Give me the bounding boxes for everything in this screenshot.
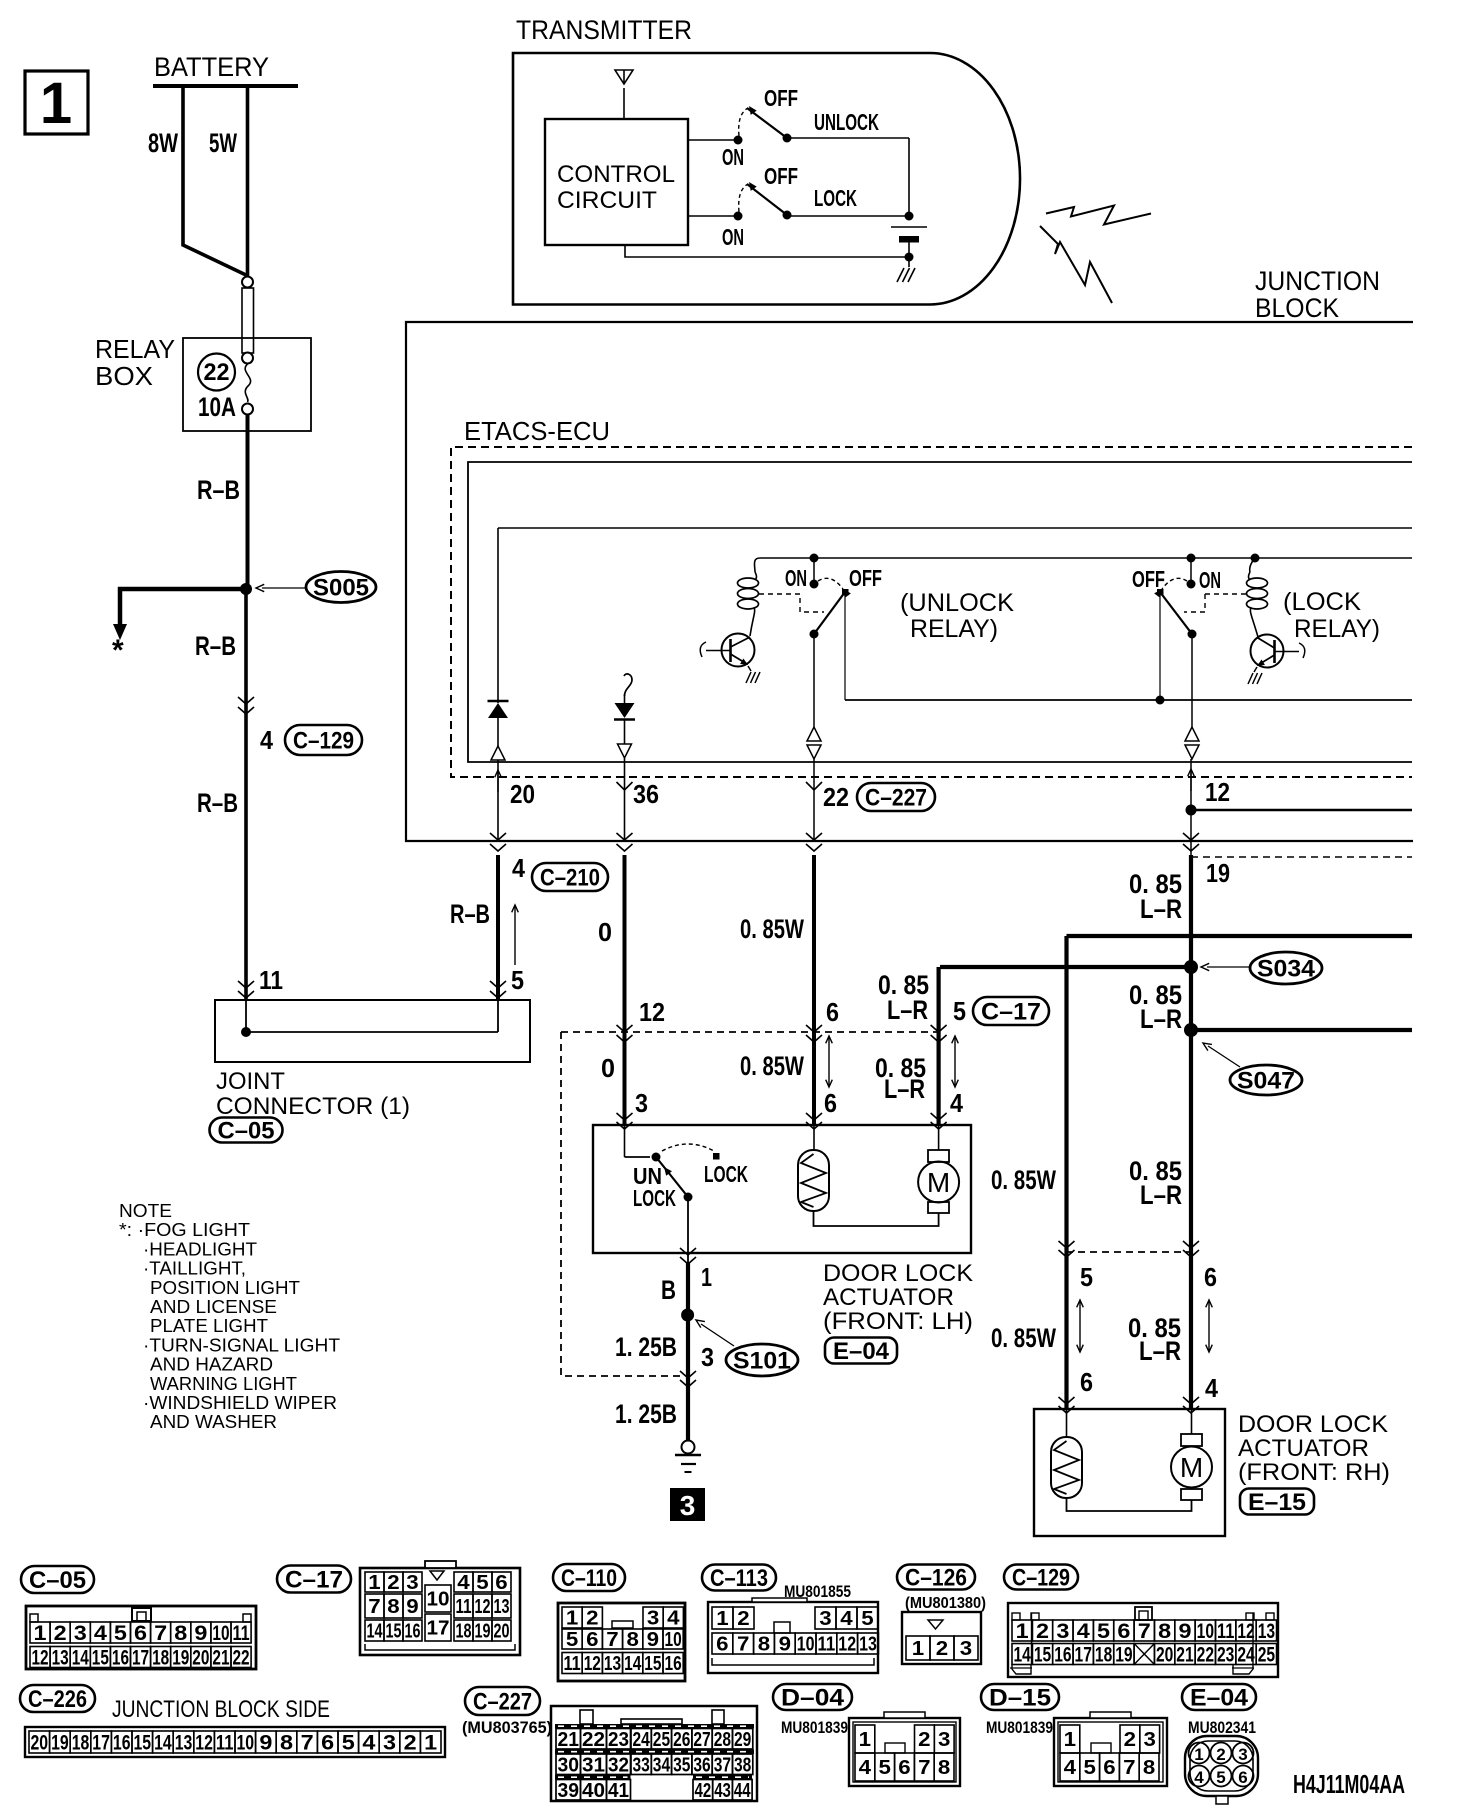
svg-text:(FRONT: RH): (FRONT: RH) [1238, 1459, 1390, 1486]
svg-text:16: 16 [665, 1653, 682, 1675]
svg-text:10: 10 [237, 1732, 255, 1755]
svg-text:2: 2 [54, 1622, 67, 1645]
svg-text:BLOCK: BLOCK [1255, 293, 1339, 323]
svg-text:6: 6 [134, 1622, 147, 1645]
svg-text:13: 13 [494, 1596, 510, 1618]
svg-text:35: 35 [673, 1754, 690, 1776]
svg-text:(MU803765): (MU803765) [462, 1718, 552, 1737]
svg-text:31: 31 [582, 1754, 605, 1776]
svg-text:5: 5 [566, 1629, 578, 1651]
svg-text:3: 3 [635, 1088, 648, 1118]
svg-text:33: 33 [633, 1754, 650, 1776]
svg-text:1: 1 [912, 1638, 924, 1660]
svg-text:32: 32 [608, 1754, 629, 1776]
svg-text:40: 40 [582, 1780, 605, 1802]
svg-text:6: 6 [1238, 1768, 1247, 1787]
svg-text:(LOCK: (LOCK [1283, 588, 1361, 616]
svg-text:21: 21 [1176, 1644, 1194, 1667]
svg-text:4: 4 [1064, 1757, 1077, 1779]
svg-text:TRANSMITTER: TRANSMITTER [516, 15, 692, 45]
svg-text:D–04: D–04 [781, 1685, 845, 1712]
svg-text:1: 1 [1194, 1745, 1203, 1764]
svg-text:C–17: C–17 [285, 1567, 343, 1594]
svg-text:17: 17 [132, 1647, 149, 1670]
svg-text:C–129: C–129 [293, 728, 354, 755]
svg-text:23: 23 [608, 1729, 629, 1751]
svg-text:11: 11 [233, 1622, 250, 1645]
svg-text:19: 19 [172, 1647, 189, 1670]
svg-text:30: 30 [558, 1754, 580, 1776]
svg-text:B: B [661, 1275, 676, 1305]
svg-text:C–126: C–126 [905, 1565, 967, 1592]
svg-text:8: 8 [1158, 1620, 1171, 1643]
svg-text:7: 7 [154, 1622, 167, 1645]
svg-text:JUNCTION BLOCK SIDE: JUNCTION BLOCK SIDE [112, 1696, 330, 1723]
svg-text:1: 1 [40, 71, 72, 136]
svg-text:26: 26 [673, 1729, 690, 1751]
svg-text:1: 1 [1064, 1729, 1076, 1751]
svg-text:RELAY: RELAY [95, 334, 175, 364]
svg-text:22: 22 [823, 782, 849, 812]
svg-text:C–113: C–113 [710, 1565, 768, 1592]
svg-text:14: 14 [72, 1647, 89, 1670]
svg-text:3: 3 [680, 1490, 696, 1521]
svg-text:C–227: C–227 [473, 1689, 532, 1716]
svg-text:27: 27 [693, 1729, 710, 1751]
svg-text:PLATE LIGHT: PLATE LIGHT [150, 1316, 268, 1336]
svg-text:C–17: C–17 [981, 999, 1041, 1026]
svg-text:20: 20 [510, 779, 535, 809]
svg-text:39: 39 [558, 1780, 580, 1802]
svg-text:M: M [1180, 1452, 1203, 1483]
svg-text:1: 1 [701, 1262, 712, 1292]
svg-text:8: 8 [1143, 1757, 1155, 1779]
svg-text:18: 18 [72, 1732, 90, 1755]
svg-text:3: 3 [819, 1608, 831, 1630]
svg-text:OFF: OFF [764, 85, 798, 111]
svg-text:5: 5 [953, 996, 966, 1026]
svg-text:3: 3 [701, 1342, 714, 1372]
svg-text:C–227: C–227 [865, 785, 927, 812]
svg-text:7: 7 [368, 1596, 380, 1618]
svg-text:3: 3 [1056, 1620, 1069, 1643]
svg-text:1: 1 [1016, 1620, 1029, 1643]
svg-text:21: 21 [558, 1729, 580, 1751]
svg-text:JOINT: JOINT [216, 1068, 285, 1095]
svg-text:12: 12 [195, 1732, 213, 1755]
svg-text:C–226: C–226 [28, 1686, 87, 1713]
svg-text:*: * [112, 634, 124, 667]
svg-text:3: 3 [960, 1638, 972, 1660]
svg-text:12: 12 [32, 1647, 49, 1670]
svg-text:15: 15 [92, 1647, 109, 1670]
svg-text:2: 2 [737, 1608, 749, 1630]
svg-text:C–05: C–05 [29, 1567, 86, 1594]
svg-text:20: 20 [192, 1647, 209, 1670]
svg-text:16: 16 [1054, 1644, 1071, 1667]
svg-text:10: 10 [1197, 1620, 1214, 1643]
svg-text:3: 3 [1238, 1745, 1247, 1764]
svg-text:1. 25B: 1. 25B [615, 1399, 677, 1429]
svg-text:12: 12 [584, 1653, 601, 1675]
svg-text:C–129: C–129 [1012, 1565, 1070, 1592]
svg-text:22: 22 [1197, 1644, 1214, 1667]
svg-text:14: 14 [624, 1653, 642, 1675]
svg-text:14: 14 [367, 1621, 384, 1643]
svg-text:11: 11 [216, 1732, 234, 1755]
svg-text:5: 5 [1080, 1262, 1093, 1292]
svg-text:L–R: L–R [1140, 894, 1182, 924]
svg-text:8W: 8W [148, 128, 178, 158]
svg-text:14: 14 [154, 1732, 172, 1755]
svg-text:7: 7 [737, 1634, 749, 1656]
svg-text:23: 23 [1217, 1644, 1234, 1667]
svg-text:ACTUATOR: ACTUATOR [823, 1284, 954, 1311]
svg-text:1: 1 [566, 1608, 578, 1630]
svg-text:10A: 10A [198, 392, 236, 422]
svg-text:10: 10 [427, 1589, 450, 1611]
svg-text:L–R: L–R [1140, 1180, 1182, 1210]
svg-text:L–R: L–R [887, 995, 928, 1025]
svg-text:4: 4 [667, 1608, 680, 1630]
svg-text:C–05: C–05 [218, 1118, 275, 1145]
svg-text:ON: ON [785, 565, 807, 591]
svg-text:12: 12 [838, 1634, 856, 1656]
svg-text:34: 34 [653, 1754, 671, 1776]
svg-text:(MU801380): (MU801380) [905, 1595, 986, 1612]
svg-text:4: 4 [1194, 1768, 1204, 1787]
svg-text:DOOR LOCK: DOOR LOCK [1238, 1411, 1388, 1438]
svg-text:BOX: BOX [95, 361, 153, 391]
svg-text:DOOR LOCK: DOOR LOCK [823, 1260, 973, 1287]
svg-text:MU801839: MU801839 [986, 1718, 1053, 1737]
svg-text:8: 8 [174, 1622, 187, 1645]
svg-text:S101: S101 [733, 1348, 791, 1375]
svg-text:2: 2 [936, 1638, 948, 1660]
svg-text:9: 9 [779, 1634, 791, 1656]
svg-text:11: 11 [1217, 1620, 1235, 1643]
svg-text:0. 85W: 0. 85W [740, 914, 804, 944]
svg-text:E–04: E–04 [1190, 1685, 1249, 1712]
svg-text:4: 4 [94, 1622, 107, 1645]
svg-text:3: 3 [1144, 1729, 1156, 1751]
svg-text:NOTE: NOTE [119, 1201, 172, 1221]
svg-text:POSITION LIGHT: POSITION LIGHT [150, 1278, 300, 1298]
svg-text:ON: ON [722, 224, 744, 250]
svg-text:6: 6 [824, 1088, 837, 1118]
svg-text:6: 6 [586, 1629, 598, 1651]
svg-text:25: 25 [1258, 1644, 1276, 1667]
svg-text:8: 8 [758, 1634, 770, 1656]
svg-text:AND HAZARD: AND HAZARD [150, 1355, 273, 1375]
svg-text:12: 12 [475, 1596, 491, 1618]
svg-text:ETACS-ECU: ETACS-ECU [464, 416, 610, 446]
svg-text:5: 5 [1216, 1768, 1225, 1787]
svg-text:LOCK: LOCK [704, 1161, 748, 1187]
svg-text:4: 4 [1077, 1620, 1090, 1643]
svg-text:L–R: L–R [884, 1074, 925, 1104]
svg-text:5: 5 [511, 965, 524, 995]
svg-text:2: 2 [586, 1608, 598, 1630]
svg-text:2: 2 [1216, 1745, 1225, 1764]
svg-text:15: 15 [134, 1732, 152, 1755]
svg-text:OFF: OFF [1132, 566, 1165, 592]
svg-text:*: ·FOG LIGHT: *: ·FOG LIGHT [119, 1220, 250, 1240]
svg-text:8: 8 [280, 1732, 293, 1755]
svg-text:2: 2 [404, 1732, 417, 1755]
svg-text:9: 9 [259, 1732, 272, 1755]
svg-text:12: 12 [639, 997, 665, 1027]
svg-text:C–210: C–210 [540, 865, 600, 892]
svg-text:17: 17 [1075, 1644, 1092, 1667]
svg-text:2: 2 [1124, 1729, 1136, 1751]
svg-text:4: 4 [950, 1088, 963, 1118]
svg-text:18: 18 [1095, 1644, 1113, 1667]
svg-text:13: 13 [175, 1732, 193, 1755]
svg-text:2: 2 [387, 1572, 399, 1594]
svg-text:6: 6 [1103, 1757, 1115, 1779]
svg-text:7: 7 [918, 1757, 930, 1779]
svg-text:L–R: L–R [1139, 1336, 1181, 1366]
svg-text:OFF: OFF [764, 163, 798, 189]
svg-text:13: 13 [604, 1653, 621, 1675]
svg-text:8: 8 [627, 1629, 639, 1651]
svg-text:24: 24 [1237, 1644, 1255, 1667]
svg-text:MU802341: MU802341 [1188, 1718, 1256, 1737]
svg-text:1. 25B: 1. 25B [615, 1332, 677, 1362]
svg-text:36: 36 [693, 1754, 710, 1776]
svg-text:6: 6 [495, 1572, 507, 1594]
svg-text:4: 4 [1205, 1373, 1218, 1403]
svg-text:BATTERY: BATTERY [154, 52, 269, 82]
svg-text:15: 15 [386, 1621, 402, 1643]
svg-text:11: 11 [818, 1634, 836, 1656]
svg-text:1: 1 [716, 1608, 728, 1630]
svg-text:5: 5 [879, 1757, 891, 1779]
svg-text:ACTUATOR: ACTUATOR [1238, 1435, 1369, 1462]
svg-text:LOCK: LOCK [814, 185, 857, 211]
svg-text:41: 41 [608, 1780, 629, 1802]
svg-text:28: 28 [714, 1729, 731, 1751]
svg-text:43: 43 [714, 1780, 731, 1802]
svg-text:20: 20 [31, 1732, 49, 1755]
svg-text:(FRONT: LH): (FRONT: LH) [823, 1308, 973, 1335]
svg-text:6: 6 [1117, 1620, 1130, 1643]
svg-text:2: 2 [1036, 1620, 1049, 1643]
svg-text:E–15: E–15 [1248, 1489, 1306, 1516]
svg-text:3: 3 [406, 1572, 418, 1594]
svg-text:0. 85W: 0. 85W [991, 1323, 1056, 1353]
svg-text:37: 37 [714, 1754, 731, 1776]
svg-text:·HEADLIGHT: ·HEADLIGHT [143, 1239, 257, 1259]
svg-text:9: 9 [647, 1629, 659, 1651]
svg-text:42: 42 [695, 1780, 712, 1802]
svg-text:M: M [927, 1167, 950, 1198]
svg-text:38: 38 [734, 1754, 751, 1776]
svg-text:24: 24 [633, 1729, 651, 1751]
svg-text:S047: S047 [1237, 1068, 1295, 1095]
svg-text:0: 0 [601, 1053, 615, 1083]
svg-text:13: 13 [1258, 1620, 1275, 1643]
svg-text:0. 85W: 0. 85W [991, 1165, 1056, 1195]
svg-text:4: 4 [512, 853, 525, 883]
svg-text:L–R: L–R [1140, 1004, 1182, 1034]
svg-text:4: 4 [457, 1572, 470, 1594]
svg-text:S005: S005 [313, 575, 369, 602]
svg-text:8: 8 [938, 1757, 950, 1779]
svg-text:3: 3 [383, 1732, 396, 1755]
svg-text:6: 6 [716, 1634, 728, 1656]
svg-text:11: 11 [259, 965, 283, 995]
svg-text:16: 16 [113, 1732, 131, 1755]
svg-text:0: 0 [598, 917, 612, 947]
svg-text:20: 20 [1156, 1644, 1173, 1667]
svg-text:15: 15 [644, 1653, 661, 1675]
svg-text:36: 36 [633, 779, 659, 809]
svg-text:11: 11 [564, 1653, 581, 1675]
svg-text:CONTROL: CONTROL [557, 161, 675, 188]
svg-text:8: 8 [387, 1596, 399, 1618]
svg-text:4: 4 [859, 1757, 872, 1779]
svg-text:10: 10 [212, 1622, 229, 1645]
svg-text:·WINDSHIELD WIPER: ·WINDSHIELD WIPER [143, 1393, 337, 1413]
svg-text:7: 7 [1138, 1620, 1151, 1643]
svg-text:10: 10 [797, 1634, 815, 1656]
svg-text:5: 5 [114, 1622, 127, 1645]
svg-text:4: 4 [260, 725, 273, 755]
svg-text:ON: ON [722, 144, 744, 170]
svg-text:5: 5 [342, 1732, 355, 1755]
svg-text:5: 5 [861, 1608, 873, 1630]
svg-text:6: 6 [826, 997, 839, 1027]
svg-text:LOCK: LOCK [633, 1185, 676, 1211]
svg-text:4: 4 [362, 1732, 375, 1755]
svg-text:C–110: C–110 [561, 1565, 617, 1592]
svg-text:10: 10 [665, 1629, 682, 1651]
svg-text:22: 22 [233, 1647, 250, 1670]
svg-text:44: 44 [734, 1780, 751, 1802]
svg-text:R–B: R–B [197, 788, 238, 818]
svg-text:H4J11M04AA: H4J11M04AA [1293, 1769, 1405, 1799]
svg-text:19: 19 [1206, 858, 1230, 888]
svg-text:9: 9 [1178, 1620, 1191, 1643]
svg-text:7: 7 [1123, 1757, 1135, 1779]
svg-text:13: 13 [859, 1634, 877, 1656]
svg-text:RELAY): RELAY) [910, 615, 998, 643]
svg-text:UNLOCK: UNLOCK [814, 109, 879, 135]
svg-text:3: 3 [74, 1622, 87, 1645]
svg-text:E–04: E–04 [833, 1338, 890, 1365]
svg-text:21: 21 [212, 1647, 229, 1670]
svg-text:6: 6 [1080, 1367, 1093, 1397]
svg-text:19: 19 [475, 1621, 491, 1643]
svg-text:1: 1 [424, 1732, 437, 1755]
svg-text:11: 11 [456, 1596, 472, 1618]
svg-text:3: 3 [647, 1608, 659, 1630]
svg-text:5: 5 [1097, 1620, 1110, 1643]
svg-text:13: 13 [52, 1647, 69, 1670]
svg-text:0. 85W: 0. 85W [740, 1051, 804, 1081]
svg-text:5: 5 [1084, 1757, 1096, 1779]
svg-text:CIRCUIT: CIRCUIT [557, 187, 657, 214]
svg-text:7: 7 [606, 1629, 618, 1651]
svg-text:(UNLOCK: (UNLOCK [900, 589, 1014, 617]
svg-text:12: 12 [1205, 777, 1230, 807]
svg-text:18: 18 [456, 1621, 472, 1643]
svg-text:AND LICENSE: AND LICENSE [150, 1297, 277, 1317]
svg-text:R–B: R–B [195, 631, 236, 661]
svg-text:R–B: R–B [450, 899, 490, 929]
svg-text:18: 18 [152, 1647, 169, 1670]
svg-text:1: 1 [368, 1572, 380, 1594]
svg-text:20: 20 [494, 1621, 510, 1643]
svg-text:16: 16 [405, 1621, 421, 1643]
svg-text:14: 14 [1014, 1644, 1032, 1667]
svg-text:·TURN-SIGNAL LIGHT: ·TURN-SIGNAL LIGHT [143, 1335, 340, 1355]
svg-text:MU801839: MU801839 [781, 1718, 848, 1737]
svg-text:4: 4 [840, 1608, 853, 1630]
svg-text:S034: S034 [1257, 956, 1316, 983]
svg-text:WARNING LIGHT: WARNING LIGHT [150, 1374, 297, 1394]
svg-text:19: 19 [1115, 1644, 1132, 1667]
svg-text:ON: ON [1199, 567, 1221, 593]
svg-text:D–15: D–15 [989, 1685, 1051, 1712]
svg-text:2: 2 [918, 1729, 930, 1751]
svg-text:6: 6 [898, 1757, 910, 1779]
svg-text:7: 7 [301, 1732, 314, 1755]
svg-text:R–B: R–B [197, 475, 240, 505]
svg-text:1: 1 [34, 1622, 47, 1645]
svg-text:CONNECTOR (1): CONNECTOR (1) [216, 1093, 410, 1120]
svg-text:17: 17 [427, 1618, 450, 1640]
svg-text:JUNCTION: JUNCTION [1255, 266, 1380, 296]
svg-text:AND WASHER: AND WASHER [150, 1412, 277, 1432]
svg-text:5W: 5W [209, 128, 237, 158]
svg-text:17: 17 [92, 1732, 110, 1755]
svg-text:1: 1 [859, 1729, 871, 1751]
svg-text:12: 12 [1237, 1620, 1254, 1643]
svg-text:15: 15 [1034, 1644, 1052, 1667]
svg-text:25: 25 [653, 1729, 670, 1751]
svg-text:·TAILLIGHT,: ·TAILLIGHT, [143, 1259, 246, 1279]
svg-text:9: 9 [194, 1622, 207, 1645]
svg-text:3: 3 [938, 1729, 950, 1751]
svg-text:6: 6 [321, 1732, 334, 1755]
svg-text:22: 22 [204, 359, 230, 386]
svg-text:9: 9 [406, 1596, 418, 1618]
svg-text:29: 29 [734, 1729, 751, 1751]
svg-text:22: 22 [582, 1729, 605, 1751]
svg-text:6: 6 [1204, 1262, 1217, 1292]
svg-text:16: 16 [112, 1647, 129, 1670]
svg-text:5: 5 [476, 1572, 488, 1594]
svg-text:RELAY): RELAY) [1294, 615, 1380, 643]
svg-text:19: 19 [51, 1732, 69, 1755]
svg-text:OFF: OFF [849, 565, 882, 591]
